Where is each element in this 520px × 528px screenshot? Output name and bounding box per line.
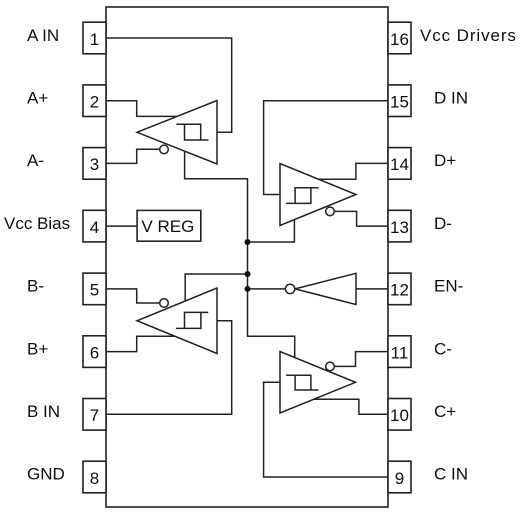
svg-text:B+: B+: [27, 339, 48, 358]
svg-text:1: 1: [90, 30, 99, 49]
svg-text:D-: D-: [434, 214, 452, 233]
svg-text:6: 6: [90, 343, 99, 362]
svg-text:11: 11: [391, 343, 409, 362]
svg-text:A-: A-: [27, 151, 44, 170]
svg-text:14: 14: [390, 155, 409, 174]
svg-text:10: 10: [390, 406, 409, 425]
svg-text:A IN: A IN: [27, 26, 59, 45]
svg-text:3: 3: [90, 155, 99, 174]
svg-text:13: 13: [390, 218, 409, 237]
svg-text:16: 16: [390, 30, 409, 49]
svg-text:B IN: B IN: [27, 402, 60, 421]
svg-text:C-: C-: [434, 339, 452, 358]
svg-text:12: 12: [390, 281, 409, 300]
svg-text:D+: D+: [434, 151, 456, 170]
svg-text:5: 5: [90, 281, 99, 300]
svg-text:GND: GND: [27, 465, 65, 484]
svg-text:D IN: D IN: [434, 89, 468, 108]
svg-text:V REG: V REG: [141, 217, 194, 236]
svg-text:4: 4: [90, 218, 99, 237]
svg-text:EN-: EN-: [434, 277, 463, 296]
svg-text:15: 15: [390, 93, 409, 112]
svg-text:8: 8: [90, 469, 99, 488]
svg-text:C IN: C IN: [434, 465, 468, 484]
svg-text:Vcc Bias: Vcc Bias: [4, 214, 70, 233]
svg-text:A+: A+: [27, 89, 48, 108]
svg-text:9: 9: [395, 469, 404, 488]
svg-text:7: 7: [90, 406, 99, 425]
svg-text:Vcc Drivers: Vcc Drivers: [420, 26, 517, 45]
svg-text:2: 2: [90, 93, 99, 112]
svg-text:C+: C+: [434, 402, 456, 421]
svg-text:B-: B-: [27, 277, 44, 296]
